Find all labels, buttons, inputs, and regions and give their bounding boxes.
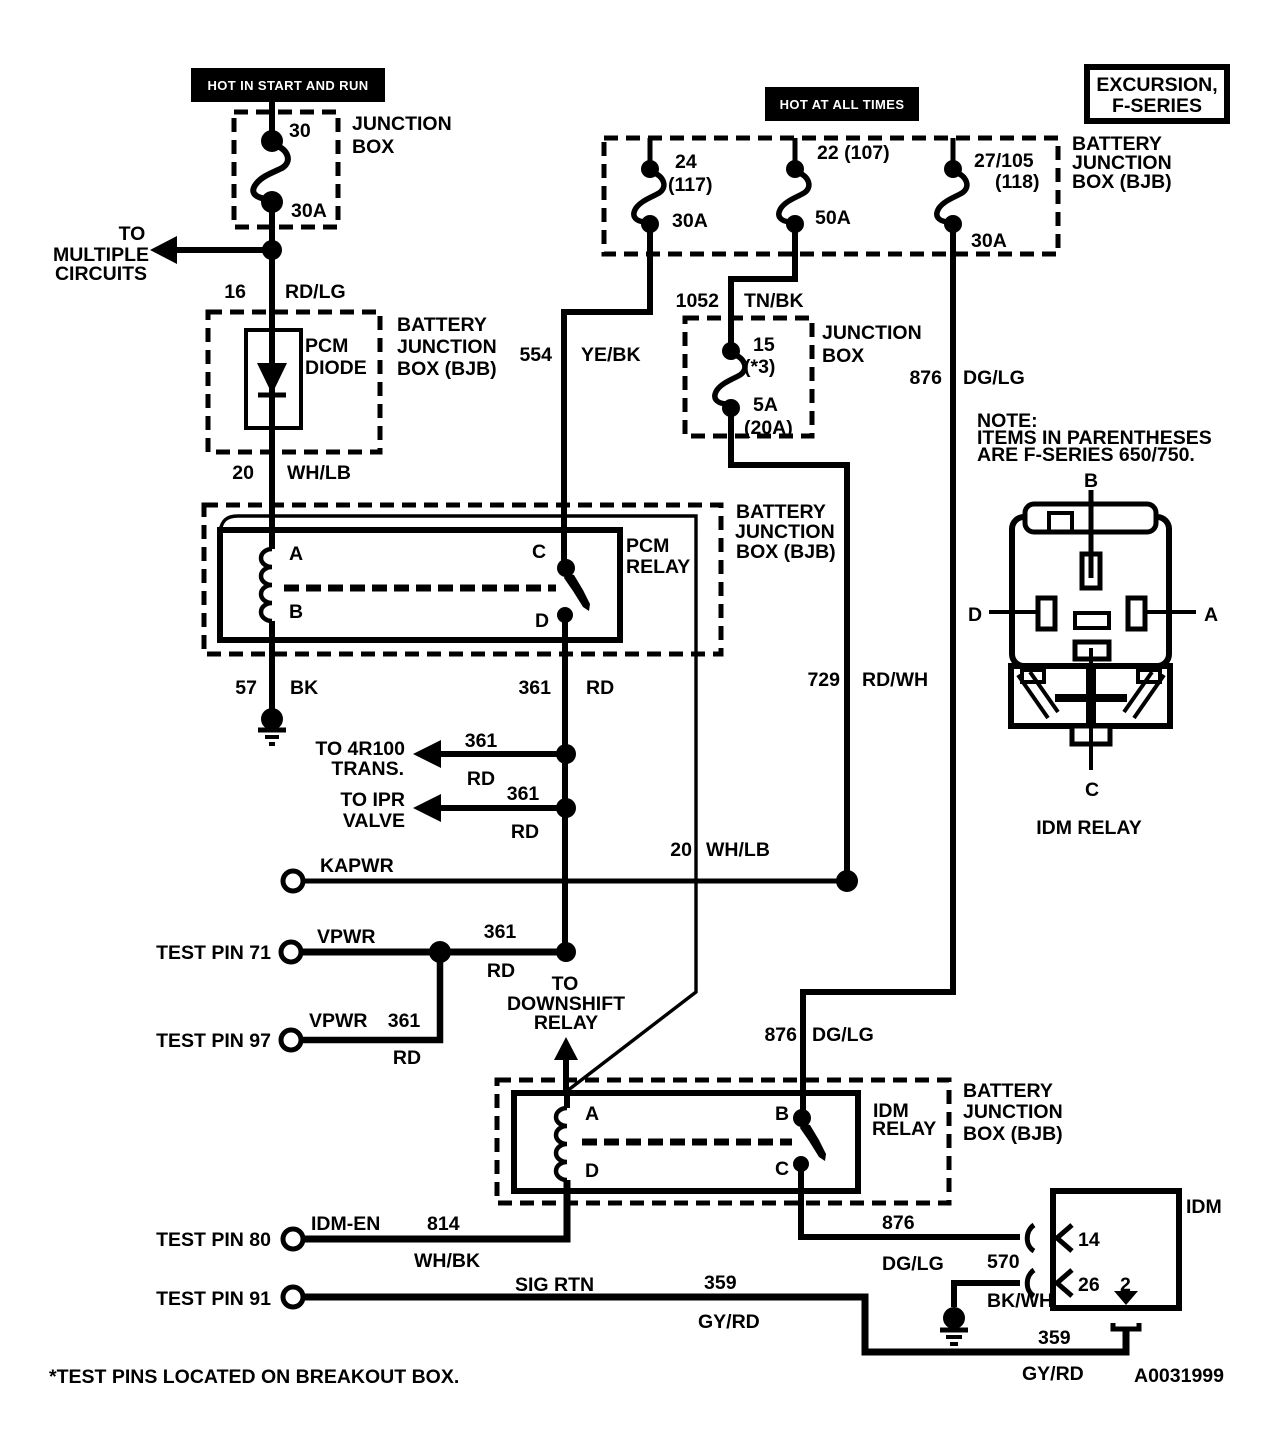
svg-text:BOX (BJB): BOX (BJB) (397, 358, 497, 380)
coil A-D (556, 1108, 567, 1180)
svg-text:RD: RD (467, 768, 495, 790)
svg-text:EXCURSION,: EXCURSION, (1096, 74, 1217, 96)
svg-text:RD: RD (586, 677, 614, 699)
svg-text:BATTERY: BATTERY (963, 1080, 1053, 1102)
wire 57 BK to ground (269, 621, 275, 712)
node junction dot (262, 240, 282, 260)
svg-text:PCM: PCM (626, 535, 669, 557)
svg-text:VALVE: VALVE (343, 810, 405, 832)
body (1012, 517, 1169, 666)
IDM relay U2 (514, 1093, 936, 1191)
svg-text:TN/BK: TN/BK (744, 290, 804, 312)
PCM relay U1 (220, 530, 690, 640)
TEST PIN 97 VPWR (156, 952, 440, 1069)
wire 554 YE/BK from fuse 24 to PCM relay pin C (564, 224, 650, 566)
svg-text:VPWR: VPWR (309, 1010, 368, 1032)
svg-text:26: 26 (1078, 1274, 1100, 1296)
svg-text:DIODE: DIODE (305, 357, 367, 379)
svg-text:30A: 30A (291, 200, 327, 222)
svg-text:729: 729 (807, 669, 840, 691)
svg-text:BOX (BJB): BOX (BJB) (963, 1123, 1063, 1145)
TO DOWNSHIFT RELAY arrow (507, 973, 625, 1093)
svg-text:B: B (1084, 470, 1098, 492)
svg-text:5A: 5A (753, 394, 778, 416)
svg-text:WH/BK: WH/BK (414, 1250, 480, 1272)
svg-text:1052: 1052 (676, 290, 720, 312)
switch B-C (793, 1109, 811, 1127)
svg-text:BOX (BJB): BOX (BJB) (1072, 171, 1172, 193)
svg-text:YE/BK: YE/BK (581, 344, 641, 366)
svg-text:(*3): (*3) (744, 356, 775, 378)
banner HOT AT ALL TIMES (765, 87, 919, 121)
wire to multiple circuits arrow (172, 247, 272, 253)
svg-text:24: 24 (675, 151, 697, 173)
wire 876 DG/LG from IDM relay C to IDM pin 14 (801, 1164, 1020, 1237)
svg-text:HOT AT ALL TIMES: HOT AT ALL TIMES (780, 97, 905, 112)
TEST PIN 71 VPWR (156, 921, 576, 982)
svg-text:(20A): (20A) (744, 417, 793, 439)
svg-text:A: A (289, 543, 303, 565)
fuse 27/105 (118) 30A (937, 138, 1040, 252)
svg-text:RELAY: RELAY (626, 556, 690, 578)
battery junction box BJB (dashed) top (604, 138, 1058, 254)
svg-text:WH/LB: WH/LB (287, 462, 351, 484)
svg-text:(118): (118) (995, 171, 1039, 193)
pin A slot and lead (1128, 598, 1145, 629)
pin B slot (1082, 554, 1100, 588)
svg-text:GY/RD: GY/RD (1022, 1363, 1084, 1385)
svg-text:TRANS.: TRANS. (331, 758, 404, 780)
svg-text:RD: RD (511, 821, 539, 843)
svg-text:D: D (968, 604, 982, 626)
svg-text:JUNCTION: JUNCTION (397, 336, 497, 358)
svg-text:DG/LG: DG/LG (963, 367, 1025, 389)
svg-text:DG/LG: DG/LG (882, 1253, 944, 1275)
wire SIG RTN 359 GY/RD test pin 91 (156, 1272, 1126, 1385)
svg-text:BOX: BOX (352, 136, 394, 158)
svg-text:570: 570 (987, 1251, 1020, 1273)
svg-text:30A: 30A (672, 210, 708, 232)
svg-text:PCM: PCM (305, 335, 348, 357)
svg-text:361: 361 (484, 921, 517, 943)
svg-text:814: 814 (427, 1213, 460, 1235)
KAPWR terminal (283, 855, 858, 892)
svg-text:361: 361 (518, 677, 551, 699)
svg-text:RELAY: RELAY (534, 1012, 598, 1034)
svg-text:TEST PIN 91: TEST PIN 91 (156, 1288, 271, 1310)
wire 1052 TN/BK from fuse 22 to junction box fuse (731, 224, 795, 352)
svg-text:WH/LB: WH/LB (706, 839, 770, 861)
branch to IPR valve (340, 783, 576, 843)
svg-text:27/105: 27/105 (974, 150, 1034, 172)
svg-text:TO: TO (119, 223, 146, 245)
wire 361 RD from PCM relay pin D (562, 615, 568, 952)
svg-text:359: 359 (704, 1272, 737, 1294)
pin 14 connector (1027, 1225, 1034, 1251)
svg-text:876: 876 (764, 1024, 797, 1046)
bottom tab (1072, 726, 1110, 744)
svg-text:57: 57 (235, 677, 257, 699)
coil A-B (261, 549, 272, 621)
fuse 15 (*3) 5A (20A) (715, 334, 793, 439)
svg-text:B: B (775, 1103, 789, 1125)
svg-text:JUNCTION: JUNCTION (352, 113, 452, 135)
svg-text:361: 361 (388, 1010, 421, 1032)
svg-text:TEST PIN 71: TEST PIN 71 (156, 942, 271, 964)
svg-text:HOT IN START AND RUN: HOT IN START AND RUN (207, 78, 368, 93)
branch to 4R100 trans (315, 730, 576, 790)
fuse 22 (107) 50A (779, 138, 890, 233)
svg-text:C: C (1085, 779, 1099, 801)
pin 26 connector (1027, 1270, 1034, 1296)
svg-text:30A: 30A (971, 230, 1007, 252)
wire 16 RD/LG (269, 250, 275, 332)
svg-text:TEST PIN 97: TEST PIN 97 (156, 1030, 271, 1052)
svg-text:A: A (585, 1103, 599, 1125)
thin wire 20 WH/LB over relay and down (220, 516, 696, 1091)
svg-text:F-SERIES: F-SERIES (1112, 95, 1202, 117)
banner HOT IN START AND RUN (191, 68, 385, 102)
svg-text:SIG RTN: SIG RTN (515, 1274, 594, 1296)
wire 570 BK/WH from IDM pin 26 to ground (954, 1283, 1020, 1307)
svg-text:TEST PIN 80: TEST PIN 80 (156, 1229, 271, 1251)
IDM relay battery junction box (dashed) (497, 1080, 949, 1203)
lower bracket (1011, 666, 1170, 726)
pin C lead (1089, 648, 1093, 770)
wire 20 WH/LB (269, 428, 275, 549)
svg-text:14: 14 (1078, 1229, 1100, 1251)
svg-text:(117): (117) (668, 174, 712, 196)
svg-text:IDM: IDM (1186, 1196, 1222, 1218)
dashed link (284, 585, 556, 592)
svg-text:BK/WH: BK/WH (987, 1290, 1053, 1312)
svg-text:JUNCTION: JUNCTION (735, 521, 835, 543)
svg-text:554: 554 (519, 344, 552, 366)
svg-text:DG/LG: DG/LG (812, 1024, 874, 1046)
svg-text:JUNCTION: JUNCTION (822, 322, 922, 344)
svg-text:876: 876 (909, 367, 942, 389)
wire IDM-EN 814 WH/BK test pin 80 (156, 1180, 567, 1272)
svg-text:CIRCUITS: CIRCUITS (55, 263, 147, 285)
svg-text:D: D (585, 1160, 599, 1182)
svg-text:B: B (289, 601, 303, 623)
svg-text:KAPWR: KAPWR (320, 855, 394, 877)
ground G1 (258, 708, 286, 744)
dashed link (582, 1139, 792, 1146)
svg-text:RD: RD (487, 960, 515, 982)
svg-text:RD/WH: RD/WH (862, 669, 928, 691)
PCM diode D1 (246, 330, 367, 428)
wire 876 DG/LG from fuse 27/105 down (803, 224, 953, 1118)
svg-text:361: 361 (465, 730, 498, 752)
svg-text:50A: 50A (815, 207, 851, 229)
svg-text:BOX (BJB): BOX (BJB) (736, 541, 836, 563)
ground G2 (940, 1307, 968, 1344)
svg-text:BATTERY: BATTERY (397, 314, 487, 336)
svg-text:C: C (532, 541, 546, 563)
svg-text:A: A (1204, 604, 1218, 626)
note text (977, 410, 1212, 466)
svg-text:IDM-EN: IDM-EN (311, 1213, 380, 1235)
wire from banner to fuse 30 (269, 102, 275, 142)
box EXCURSION F-SERIES (1087, 67, 1227, 121)
svg-text:JUNCTION: JUNCTION (963, 1101, 1063, 1123)
svg-text:ARE F-SERIES 650/750.: ARE F-SERIES 650/750. (977, 444, 1195, 466)
svg-text:TO IPR: TO IPR (340, 789, 405, 811)
pin D slot and lead (1038, 598, 1055, 629)
fuse 30 30A (253, 120, 327, 222)
svg-text:RD/LG: RD/LG (285, 281, 346, 303)
center key (1075, 613, 1109, 628)
svg-text:22 (107): 22 (107) (817, 142, 890, 164)
wire fuse to junction node (269, 202, 275, 260)
svg-text:A0031999: A0031999 (1134, 1365, 1224, 1387)
IDM module box (1027, 1191, 1222, 1352)
battery junction box (dashed) around PCM diode (208, 312, 380, 452)
svg-text:*TEST PINS LOCATED ON BREAKOUT: *TEST PINS LOCATED ON BREAKOUT BOX. (49, 1366, 459, 1388)
svg-text:RELAY: RELAY (872, 1118, 936, 1140)
svg-text:TO 4R100: TO 4R100 (315, 738, 405, 760)
junction box 2 (dashed) (685, 318, 812, 436)
switch C-D (557, 559, 575, 577)
junction box (dashed) top-left (234, 112, 338, 227)
svg-text:BOX: BOX (822, 345, 864, 367)
svg-text:BK: BK (290, 677, 318, 699)
svg-text:TO: TO (552, 973, 579, 995)
svg-text:20: 20 (232, 462, 254, 484)
svg-text:D: D (535, 610, 549, 632)
svg-text:BATTERY: BATTERY (736, 501, 826, 523)
svg-text:VPWR: VPWR (317, 926, 376, 948)
svg-text:15: 15 (753, 334, 775, 356)
svg-text:C: C (775, 1158, 789, 1180)
svg-text:876: 876 (882, 1212, 915, 1234)
svg-text:359: 359 (1038, 1327, 1071, 1349)
svg-text:361: 361 (507, 783, 540, 805)
svg-text:RD: RD (393, 1047, 421, 1069)
fuse 24 (117) 30A (634, 138, 713, 233)
svg-text:GY/RD: GY/RD (698, 1311, 760, 1333)
svg-text:16: 16 (224, 281, 246, 303)
svg-text:30: 30 (289, 120, 311, 142)
PCM relay battery junction box (dashed) (204, 505, 721, 654)
wire 729 RD/WH from junction box to KAPWR node (731, 408, 847, 881)
IDM relay connector pictorial (968, 470, 1218, 839)
svg-text:IDM RELAY: IDM RELAY (1036, 817, 1141, 839)
svg-text:20: 20 (670, 839, 692, 861)
